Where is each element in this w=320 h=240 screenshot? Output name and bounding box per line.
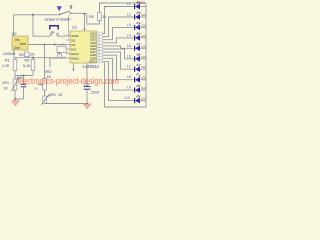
svg-text:LED: LED	[141, 13, 146, 17]
svg-text:L8: L8	[127, 75, 131, 79]
LED L2	[127, 12, 146, 20]
wire V+ arrow into IC top	[84, 14, 86, 29]
svg-text:LED: LED	[141, 23, 146, 27]
svg-text:LED6: LED6	[90, 49, 96, 51]
svg-text:U1: U1	[72, 25, 78, 30]
wire LED3	[103, 27, 134, 39]
wire R3 bottom to lower rail	[32, 71, 34, 76]
svg-text:R3: R3	[25, 59, 30, 63]
jumper JP cap bracket	[50, 26, 58, 30]
switch S1 lever and terminals	[59, 14, 61, 16]
resistor R5	[98, 13, 102, 21]
ground 1	[14, 99, 16, 101]
svg-text:LED5: LED5	[90, 46, 96, 48]
IC left pin labels	[71, 35, 79, 60]
svg-text:1K: 1K	[58, 93, 63, 97]
wire LED6	[103, 49, 134, 59]
svg-text:L5: L5	[127, 44, 131, 48]
wire JP to IC pin MODE	[58, 35, 67, 38]
svg-text:RHI: RHI	[71, 44, 75, 47]
LED L9	[127, 85, 146, 93]
potentiometer VR1	[13, 79, 17, 90]
LED L6	[127, 53, 146, 61]
svg-text:MODE: MODE	[71, 35, 79, 38]
svg-text:5.1K: 5.1K	[23, 64, 31, 68]
svg-text:2.2K: 2.2K	[2, 64, 10, 68]
LED L7	[127, 64, 146, 72]
wire LED4	[103, 38, 134, 43]
node dot branch	[54, 44, 56, 46]
wire R1 bottom lead	[14, 71, 16, 80]
svg-text:LED: LED	[141, 86, 146, 90]
svg-text:SIG: SIG	[71, 40, 75, 43]
wire LED5	[103, 46, 134, 48]
resistor R1	[13, 60, 17, 71]
svg-text:22uF: 22uF	[91, 91, 100, 95]
wire LED7	[103, 52, 134, 69]
svg-text:1K: 1K	[4, 87, 9, 91]
node junction at (84.5,13.5)	[84, 13, 86, 15]
IC left pin stubs	[66, 36, 70, 59]
LED rows L1..L10	[124, 1, 146, 103]
wire Vout divider branch x44.5 down	[44, 45, 46, 79]
svg-text:LED: LED	[141, 76, 146, 80]
wire from node down-right to R5 branch	[85, 14, 100, 24]
svg-text:RefAdj: RefAdj	[71, 57, 79, 60]
LED L10	[124, 95, 146, 103]
svg-text:RefOut: RefOut	[71, 53, 79, 56]
wire supply stub below IC x104.5	[104, 63, 106, 108]
svg-text:LED4: LED4	[90, 43, 96, 45]
background	[0, 0, 150, 113]
wire top supply line y14 from x13 to switch	[14, 14, 59, 16]
switch blue glyph	[57, 6, 63, 11]
wire LED8	[103, 55, 134, 79]
wire R5 up to top LED supply rail y3	[100, 3, 147, 13]
svg-text:RLO: RLO	[71, 48, 76, 51]
wire lower rail y75.5	[15, 75, 33, 77]
svg-text:L2: L2	[127, 13, 131, 17]
svg-text:Gnd: Gnd	[14, 46, 20, 50]
IC right pin labels LED1-LED10	[89, 34, 97, 64]
svg-text:electronics-project-design.com: electronics-project-design.com	[18, 75, 119, 86]
svg-text:LED: LED	[141, 55, 146, 59]
svg-text:R2: R2	[19, 53, 24, 57]
LED L1	[127, 1, 146, 9]
wire left vertical x13.5 down to U2 Vin	[13, 15, 15, 36]
svg-text:LED: LED	[141, 97, 146, 101]
potentiometer VR3	[44, 90, 46, 96]
wire LED10	[103, 61, 134, 100]
node dot C1 top	[23, 75, 25, 77]
wire jumper feed x33 down and right to JP	[33, 15, 50, 36]
svg-text:LED9: LED9	[90, 58, 96, 60]
LED L8	[127, 73, 146, 82]
svg-text:LM3914: LM3914	[83, 64, 99, 69]
wire R1 top lead	[14, 58, 16, 60]
wire LED1	[103, 7, 134, 34]
svg-text:L10: L10	[124, 96, 130, 100]
svg-text:S: S	[70, 4, 73, 9]
svg-text:VR3: VR3	[49, 93, 56, 97]
svg-text:L6: L6	[127, 54, 131, 58]
wire VR1 bottom to gnd node	[15, 90, 24, 99]
wire R3 top lead	[32, 58, 34, 60]
IC bottom V- stub with arrow	[73, 63, 75, 69]
LED L4	[127, 32, 146, 40]
svg-text:L4: L4	[127, 33, 131, 37]
svg-text:Vout: Vout	[20, 42, 26, 46]
svg-text:Jumper & Header: Jumper & Header	[44, 17, 72, 21]
svg-text:LED8: LED8	[90, 55, 96, 57]
IC U1 LM3914	[70, 31, 97, 63]
IC right pin connector boxes	[97, 32, 103, 63]
node junction dot at (33,14)	[32, 14, 34, 16]
wire ground rail y57.5	[14, 57, 67, 59]
svg-text:L3: L3	[127, 23, 131, 27]
wire U2 Gnd down to rail	[13, 50, 15, 58]
svg-text:R1: R1	[5, 59, 10, 63]
svg-text:+12V: +12V	[137, 1, 146, 5]
svg-text:1K: 1K	[34, 87, 38, 91]
svg-text:L7: L7	[127, 65, 131, 69]
node dot Vout branch	[44, 44, 46, 46]
svg-text:R5: R5	[89, 15, 94, 19]
svg-text:LED3: LED3	[90, 40, 96, 42]
svg-text:U2: U2	[12, 31, 18, 36]
wire LED9	[103, 58, 134, 90]
resistor R3	[31, 60, 35, 71]
node dot R3 top on rail	[32, 57, 34, 59]
svg-text:LED10: LED10	[89, 61, 97, 63]
svg-text:LED2: LED2	[90, 37, 96, 39]
potentiometer VR2	[43, 79, 47, 91]
svg-text:VR2: VR2	[45, 70, 52, 74]
svg-text:LED: LED	[141, 65, 146, 69]
component box between SIG line and pins	[57, 46, 66, 52]
jumper header pins	[50, 33, 52, 35]
svg-text:L1: L1	[127, 2, 131, 6]
wire VR3 bottom to C2 ground node	[45, 103, 88, 105]
svg-text:LED: LED	[141, 34, 146, 38]
svg-text:2K: 2K	[30, 53, 35, 57]
wire LED2	[103, 17, 134, 37]
wire mystery right edge of header box	[68, 15, 70, 38]
LED L3	[127, 22, 146, 30]
small component box on rail	[58, 54, 62, 58]
svg-text:L9: L9	[127, 86, 131, 90]
svg-text:VR1: VR1	[2, 81, 9, 85]
resistor R2	[25, 52, 30, 57]
svg-text:LED1: LED1	[90, 34, 96, 36]
svg-text:LED: LED	[141, 44, 146, 48]
wire U2 Vout to IC SIG	[28, 44, 66, 46]
temperature sensor U2 LM34	[12, 36, 28, 50]
LED L5	[127, 43, 146, 51]
wire pin REFADJ left then down	[50, 58, 66, 67]
ground 2	[86, 103, 88, 105]
wire LED anode bus right x146	[105, 3, 147, 107]
svg-text:LED7: LED7	[90, 52, 96, 54]
